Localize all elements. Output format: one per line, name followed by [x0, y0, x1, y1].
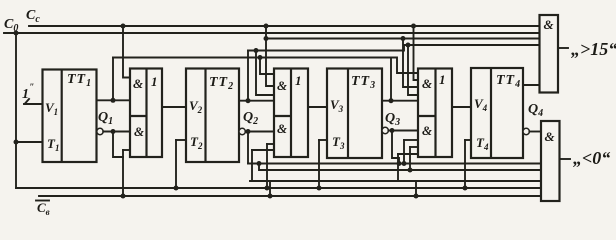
junction T4 drop	[463, 186, 468, 191]
junction Q2 riser	[246, 98, 251, 103]
wire Q1 riser	[112, 58, 114, 101]
inverted output Q1 circle	[97, 128, 103, 134]
wire C0 left drop	[15, 33, 17, 188]
inverted output Q4 circle	[523, 128, 529, 134]
svg-text:&: &	[133, 76, 143, 91]
wire Cv into gate3	[252, 149, 274, 151]
svg-text:″: ″	[30, 82, 35, 92]
wire Cc drop stage2	[123, 26, 130, 78]
svg-text:&: &	[277, 121, 287, 136]
wire Cv into gate4	[398, 153, 418, 155]
junction nQ2 branch	[246, 129, 251, 134]
gate block G4 and-or	[418, 69, 452, 158]
wire Q1 drop stage3	[260, 58, 274, 75]
wire nQ1	[103, 131, 130, 133]
wire G4 or output to V4	[452, 106, 471, 108]
wire Q2 drop stage3	[256, 51, 274, 96]
junction nQ1 branch	[111, 129, 116, 134]
junction Q1 drop stage3	[258, 55, 263, 60]
wire Q3 riser	[390, 58, 392, 101]
wire bottom rail T	[16, 187, 541, 189]
junction bus4 stage4	[406, 43, 411, 48]
junction bus3 start	[264, 36, 269, 41]
junction extra a	[402, 161, 407, 166]
wire Cv rail	[39, 195, 541, 197]
svg-text:&: &	[544, 17, 554, 32]
junction extra stage3	[265, 186, 270, 191]
wire Cv into gate2	[123, 149, 130, 151]
wire V1 input	[24, 103, 43, 105]
wire bus2b step	[259, 164, 541, 171]
junction C0 drop	[14, 31, 19, 36]
junction Cv stage2	[121, 194, 126, 199]
wire extra gate3 input	[267, 143, 274, 145]
wire nQ2 bottom bus	[248, 163, 541, 165]
gate block G2 and-or	[130, 69, 162, 158]
svg-text:„>15“: „>15“	[571, 39, 616, 59]
wire Cc drop stage3	[266, 26, 274, 86]
wire extra gate4 input a	[404, 139, 418, 141]
wire Q2 riser	[247, 51, 249, 101]
flip-flop TT2	[186, 69, 239, 163]
wire Cc rail	[29, 25, 540, 27]
wire borrow output stub	[560, 158, 571, 160]
junction nQ3 branch	[390, 128, 395, 133]
wire Q1 bus	[113, 58, 418, 74]
wire nQ1 branch down	[113, 132, 123, 158]
wire nQ3	[388, 130, 418, 132]
wire Q3 output	[382, 100, 418, 102]
wire carry output stub	[558, 47, 568, 49]
wire Cv bus	[250, 180, 541, 182]
svg-text:&: &	[422, 76, 432, 91]
svg-text:1: 1	[439, 72, 446, 87]
wire Cc drop stage4	[414, 26, 419, 80]
junction Cv stage3	[268, 194, 273, 199]
wire Q4 output	[523, 84, 540, 86]
svg-text:&: &	[134, 124, 144, 139]
wire T3 drop	[318, 140, 320, 188]
wire Cv riser stage4	[397, 154, 399, 181]
junction T2 drop	[174, 186, 179, 191]
wire bus top3	[266, 38, 540, 40]
wire Q1 output	[97, 99, 131, 101]
junction bus3 stage4	[401, 36, 406, 41]
wire nQ4	[529, 131, 541, 133]
wire Cv riser stage2	[122, 150, 124, 196]
junction Q3 riser	[389, 98, 394, 103]
wire T4 input	[465, 139, 471, 141]
flip-flop TT3	[327, 69, 382, 159]
gate block G3 and-or	[274, 69, 308, 158]
svg-text:1: 1	[151, 74, 158, 89]
svg-text:&: &	[422, 123, 432, 138]
wire bus4 drop stage4	[408, 45, 418, 95]
wire Cv tap stage3	[269, 181, 271, 196]
and gate carry out	[540, 15, 559, 93]
junction nQ3 join	[397, 161, 402, 166]
wire T3 input	[319, 139, 327, 141]
inverted output Q2 circle	[239, 128, 245, 134]
junction Cc drop stage4	[411, 24, 416, 29]
wire bus3 drop stage4	[403, 39, 418, 88]
and gate borrow out	[541, 121, 560, 201]
junction Cv stage4	[414, 194, 419, 199]
junction Cc drop stage2	[121, 24, 126, 29]
wire T2 drop	[175, 140, 177, 188]
wire Q2 output	[239, 100, 274, 102]
junction extra b	[408, 168, 413, 173]
wire G3 or output to V3	[308, 106, 327, 108]
wire Q2 bus left part	[248, 45, 540, 51]
inverted output Q3 circle	[382, 127, 388, 133]
junction Q1 riser	[111, 98, 116, 103]
wire T2 input	[176, 139, 186, 141]
flip-flop TT4	[471, 68, 523, 158]
wire Cv tap stage4	[415, 181, 417, 196]
junction Cc drop stage3	[264, 24, 269, 29]
wire extra gate4 input b	[410, 146, 418, 148]
svg-text:„<0“: „<0“	[573, 148, 610, 168]
wire T4 drop	[464, 140, 466, 188]
wire C0 rail	[4, 32, 540, 34]
svg-text:1: 1	[295, 73, 302, 88]
wire Cv riser stage3	[251, 150, 253, 181]
wire T1 input	[16, 141, 43, 143]
flip-flop TT1	[43, 70, 97, 163]
svg-text:&: &	[545, 129, 555, 144]
wire nQ2	[245, 131, 274, 133]
svg-text:&: &	[277, 78, 287, 93]
wire G2 or output to V2	[162, 106, 186, 108]
junction T1 tap	[14, 140, 19, 145]
junction bus2b branch	[257, 161, 262, 166]
wire nQ3 staircase	[392, 131, 399, 164]
junction T3 drop	[317, 186, 322, 191]
wire nQ2 drop	[247, 132, 249, 164]
